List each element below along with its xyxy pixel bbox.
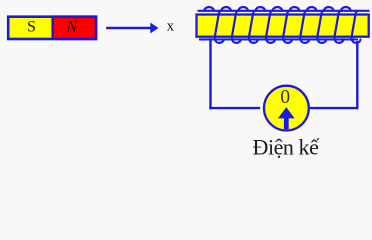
- galvanometer body: [264, 86, 309, 131]
- coil winding top axis wire: [198, 10, 370, 12]
- galvanometer needle stem: [284, 118, 289, 130]
- coil core body: [197, 15, 369, 37]
- wire bottom right (horizontal): [310, 107, 359, 109]
- svg-text:N: N: [65, 19, 78, 36]
- svg-text:x: x: [167, 19, 175, 35]
- coil winding bottom axis wire: [199, 38, 358, 40]
- bar magnet body (N pole, red): [53, 15, 98, 40]
- wire left lead (vertical): [209, 38, 211, 109]
- magnet outer border: [8, 17, 96, 39]
- svg-text:S: S: [27, 19, 36, 36]
- svg-text:Điện kế: Điện kế: [253, 135, 321, 160]
- velocity arrow head: [150, 23, 158, 34]
- wire bottom left (horizontal): [209, 107, 260, 109]
- magnet pole divider: [51, 17, 54, 39]
- bar magnet body (S pole, yellow): [7, 15, 53, 40]
- svg-text:0: 0: [280, 87, 290, 108]
- velocity arrow shaft: [106, 27, 151, 29]
- galvanometer needle head: [278, 107, 295, 118]
- coil winding turns: [204, 7, 360, 43]
- wire right lead (vertical): [356, 41, 358, 109]
